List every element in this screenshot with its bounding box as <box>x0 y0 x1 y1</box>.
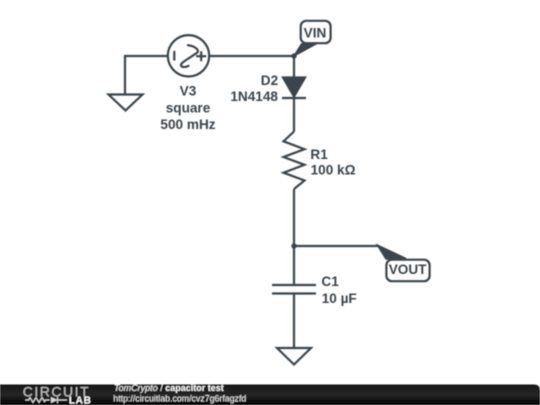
svg-text:TomCrypto / capacitor test: TomCrypto / capacitor test <box>114 383 224 393</box>
svg-text:C1: C1 <box>321 274 339 289</box>
ground (below C1) <box>277 348 311 365</box>
VIN flag pointer wedge <box>294 44 316 56</box>
capacitor C1 bottom plate <box>272 292 316 294</box>
wire: resistor to VOUT node and on to capacitor <box>293 189 295 285</box>
svg-text:LAB: LAB <box>69 395 92 405</box>
footer bar <box>0 385 540 405</box>
wire: capacitor to ground <box>293 294 295 349</box>
svg-text:V3: V3 <box>180 84 197 99</box>
svg-text:D2: D2 <box>261 73 279 88</box>
diode D2 (anode triangle) <box>283 78 305 97</box>
V3 minus terminal mark <box>173 51 175 61</box>
svg-text:VIN: VIN <box>304 26 327 41</box>
wire: VOUT node to flag <box>294 245 378 247</box>
wire: diode to resistor <box>293 98 295 132</box>
svg-text:100 kΩ: 100 kΩ <box>311 163 356 178</box>
flag box VOUT <box>386 260 429 282</box>
voltage source V3 (square wave) <box>168 35 209 76</box>
VOUT flag pointer wedge <box>378 245 407 259</box>
svg-text:500 mHz: 500 mHz <box>160 117 215 132</box>
svg-text:VOUT: VOUT <box>389 262 427 277</box>
svg-text:10 µF: 10 µF <box>322 291 357 306</box>
V3 plus terminal mark <box>196 55 206 57</box>
wire: V3 right lead to VIN node <box>209 55 294 57</box>
svg-text:1N4148: 1N4148 <box>230 89 278 104</box>
svg-text:http://circuitlab.com/cvz7g6rf: http://circuitlab.com/cvz7g6rfagzfd <box>113 393 246 403</box>
svg-text:R1: R1 <box>310 147 328 162</box>
flag box VIN <box>301 21 331 43</box>
CircuitLab logo: resistor-diode glyph <box>25 397 67 403</box>
svg-text:square: square <box>166 100 211 115</box>
capacitor C1 top plate <box>272 284 316 286</box>
diode D2 cathode bar <box>282 97 306 99</box>
V3 square-wave glyph <box>181 45 198 67</box>
node at VIN junction <box>291 53 296 58</box>
resistor R1 zigzag <box>284 132 305 190</box>
ground (left of V3) <box>109 95 143 111</box>
node at VOUT junction <box>291 243 296 248</box>
wire: VIN node down to diode <box>293 56 295 78</box>
wire: V3 left lead to ground stub <box>125 56 168 95</box>
